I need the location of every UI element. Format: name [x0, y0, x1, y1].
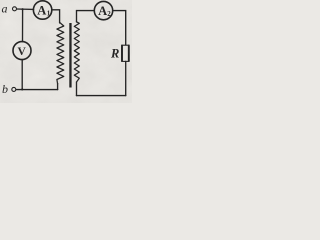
- scan noise texture: [0, 0, 1, 1]
- terminal a circle: [13, 7, 17, 11]
- wire secondary coil bottom: [76, 82, 78, 96]
- ammeter A2: [94, 1, 112, 19]
- wire coil bottom to b wire: [57, 84, 59, 90]
- wire A1 to primary coil top corner: [52, 10, 60, 23]
- ammeter A1: [33, 1, 51, 19]
- terminal b circle: [12, 87, 16, 91]
- node junction bottom of V branch: [21, 88, 23, 90]
- wire V branch bottom: [21, 60, 23, 90]
- primary coil P1: [57, 22, 64, 83]
- wire secondary top to A2: [77, 11, 95, 22]
- transformer core: [69, 23, 71, 88]
- wire resistor to bottom: [125, 61, 127, 95]
- resistor R box: [122, 45, 129, 61]
- wire V branch top: [22, 9, 24, 41]
- primary bottom wire: [16, 89, 58, 91]
- wire a to A1: [17, 8, 34, 10]
- wire A2 to right side down to resistor: [113, 11, 126, 46]
- secondary bottom wire: [77, 95, 126, 97]
- node junction top of V branch: [22, 8, 24, 10]
- secondary coil S1: [74, 22, 79, 82]
- voltmeter V: [13, 42, 31, 60]
